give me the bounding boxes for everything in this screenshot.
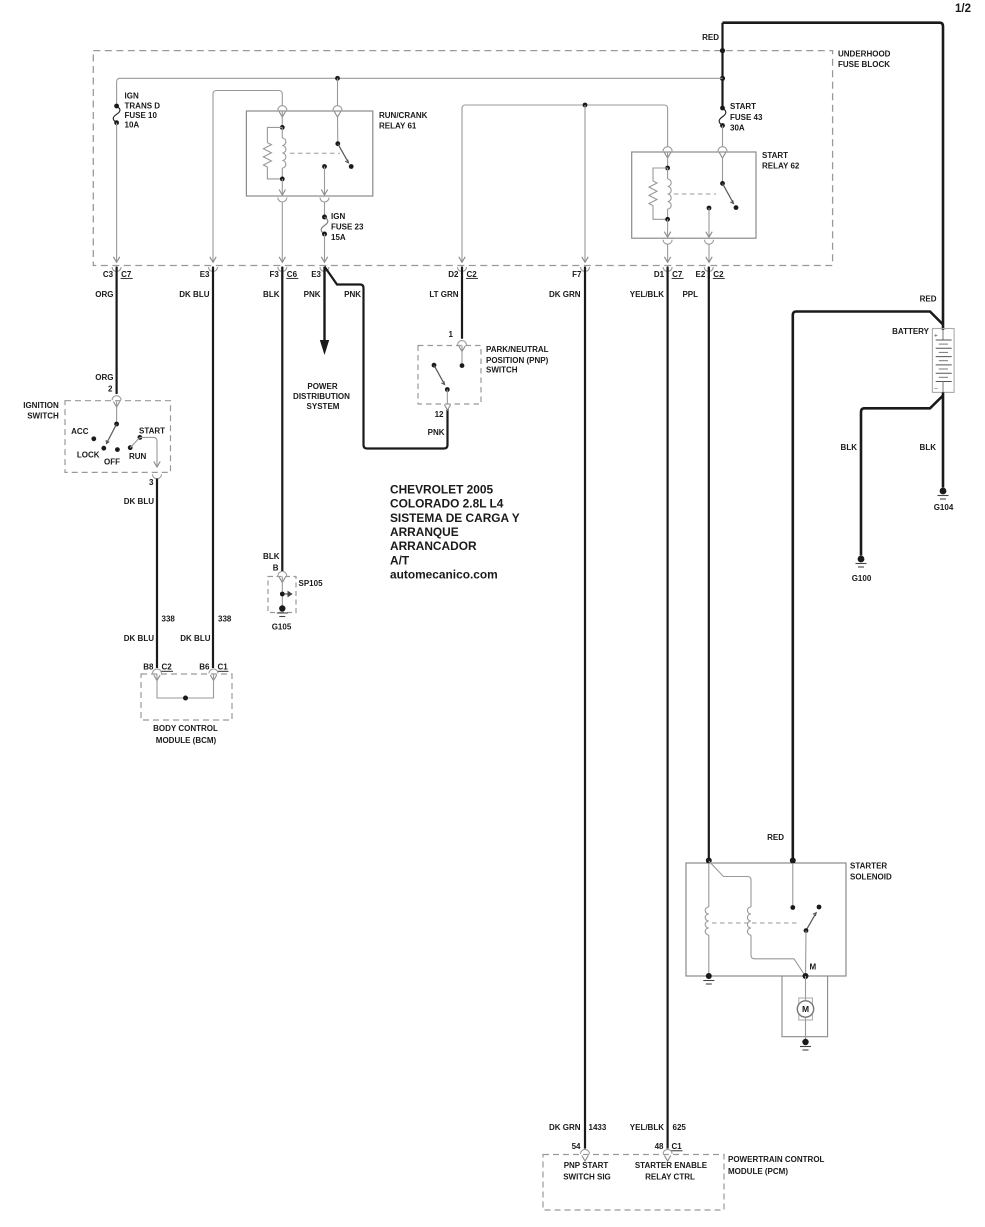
svg-text:B: B [273,564,279,573]
svg-text:338: 338 [162,615,176,624]
node PNP left contact [432,363,437,368]
svg-text:PPL: PPL [682,290,698,299]
svg-text:YEL/BLK: YEL/BLK [630,290,664,299]
wire solenoid pull-in winding branch [709,861,751,907]
node junction RED at main bus [720,76,725,81]
svg-text:FUSE 43: FUSE 43 [730,113,763,122]
pin connector SP105 top [278,571,287,576]
wire fuse43 to relay62 switch [722,126,724,147]
svg-text:−: − [934,386,938,393]
pin connector PCM 48 [663,1149,672,1153]
pin connector relay62 bottom D1 [663,240,672,245]
svg-text:RELAY CTRL: RELAY CTRL [645,1173,695,1182]
wire relay61 output to fuse 23 [324,202,326,217]
wire ignition pole [116,401,118,424]
svg-text:C2: C2 [713,270,724,279]
svg-text:C3: C3 [103,270,114,279]
svg-text:338: 338 [218,615,232,624]
wire PNP pin 12 internal [446,390,448,404]
svg-text:G104: G104 [934,503,954,512]
switch arm relay61 [338,144,349,163]
svg-text:DK BLU: DK BLU [124,497,154,506]
svg-text:RELAY 61: RELAY 61 [379,122,417,131]
wire BLK battery negative branch to G100 [861,396,943,556]
svg-text:STARTER: STARTER [850,862,887,871]
wire PPL E2/C2 to starter solenoid [708,267,710,861]
wire pull-in winding to M terminal [751,935,805,976]
wire pivot to M terminal [805,931,808,976]
svg-text:TRANS D: TRANS D [125,102,161,111]
node relay61 output contact [322,164,327,169]
svg-text:1: 1 [449,330,454,339]
node LOCK position [101,446,106,451]
wire YEL/BLK D1/C7 to PCM 48 [666,267,668,1149]
wire RUN to START link [130,437,140,447]
wire fuse23 to connector row E3 [324,234,326,262]
svg-text:E3: E3 [200,270,210,279]
wire SP105 internal [281,577,283,609]
pin connector PCM 54 [581,1149,590,1153]
dashed actuator link solenoid [712,922,798,924]
pin connector relay61 coil top [278,106,287,111]
fuse F43 START 30A [720,106,725,111]
wire BLK F3/C6 to splice SP105 [281,267,283,571]
svg-text:M: M [802,1004,809,1014]
svg-text:30A: 30A [730,124,745,133]
dashed actuator link relay61 [290,152,340,154]
svg-text:POWERTRAIN CONTROL: POWERTRAIN CONTROL [728,1155,825,1164]
svg-text:RELAY 62: RELAY 62 [762,162,800,171]
wire relay61 switch feed from bus [337,78,339,105]
node relay62 coil bottom [665,217,670,222]
coil solenoid hold-in winding [708,863,710,907]
svg-text:PARK/NEUTRAL: PARK/NEUTRAL [486,345,549,354]
wire DK BLU E3 to BCM B6 [212,267,214,668]
svg-text:MODULE (PCM): MODULE (PCM) [728,1167,788,1176]
svg-text:IGNITION: IGNITION [23,401,59,410]
starter motor housing [782,976,828,1037]
wire LT GRN D2/C2 to PNP pin 1 [461,267,463,339]
pin connector ignition switch pin 2 [112,396,121,401]
svg-text:COLORADO 2.8L L4: COLORADO 2.8L L4 [390,497,504,511]
svg-text:+: + [934,333,938,340]
wire M terminal to motor [805,976,807,1000]
svg-text:automecanico.com: automecanico.com [390,567,498,581]
svg-text:RED: RED [767,833,784,842]
svg-text:SOLENOID: SOLENOID [850,873,892,882]
svg-text:C2: C2 [467,270,478,279]
ground G104 [940,488,947,495]
svg-text:BLK: BLK [841,443,858,452]
svg-text:BATTERY: BATTERY [892,327,930,336]
wire relay62 E2 drop to row [708,244,710,262]
node relay62 NO contact [734,205,739,210]
svg-text:SWITCH: SWITCH [27,412,59,421]
svg-text:C1: C1 [672,1142,683,1151]
node relay62 switch pivot [720,181,725,186]
switch arm PNP [434,365,445,384]
svg-text:ACC: ACC [71,427,89,436]
battery symbol [932,329,954,393]
wire main bus y78 with drop to fuse 10 [117,78,723,106]
svg-text:BLK: BLK [263,552,280,561]
svg-text:A/T: A/T [390,553,410,567]
svg-text:BLK: BLK [920,443,937,452]
node ignition pivot [114,422,119,427]
node relay61 coil bottom [280,177,285,182]
svg-text:UNDERHOOD: UNDERHOOD [838,50,891,59]
svg-text:SP105: SP105 [299,579,324,588]
powertrain control module dashed box [543,1155,724,1211]
wire RED feed from battery to fuse block [721,23,723,108]
wire RED battery to starter solenoid [793,312,943,861]
node M terminal [803,973,809,979]
wire relay62 coil top stub [667,152,669,168]
wire relay61 output to pin [324,167,326,195]
ground G100 [858,556,865,563]
splice SP105 dashed box [268,577,296,613]
svg-text:DISTRIBUTION: DISTRIBUTION [293,392,350,401]
wire relay62 coil bottom to pin [667,219,669,236]
coil solenoid pull-in winding [747,907,751,935]
pin connector relay62 coil top [663,147,672,152]
wire relay61 switch arm feed [337,117,339,144]
wire RED main battery positive [723,23,944,330]
node START position [138,435,143,440]
svg-text:ORG: ORG [95,290,113,299]
svg-text:SWITCH: SWITCH [486,366,518,375]
switch arm solenoid contact disc [806,913,816,931]
svg-text:SWITCH SIG: SWITCH SIG [563,1173,611,1182]
svg-text:FUSE 10: FUSE 10 [125,111,158,120]
ground solenoid case [703,980,714,982]
node bus to run/crank relay 61 [335,76,340,81]
svg-text:10A: 10A [125,121,140,130]
arrowhead power distribution [320,340,329,355]
pin connector relay62 switch top [718,147,727,152]
svg-text:DK GRN: DK GRN [549,290,581,299]
node solenoid fixed contact [790,905,795,910]
node PNP right contact [460,363,465,368]
switch arm ignition key to LOCK [107,424,117,444]
pin connector relay61 switch top [333,106,342,111]
svg-text:LT GRN: LT GRN [429,290,458,299]
connector sockets at fuse block bottom edge [112,267,121,272]
node relay61 switch pivot [335,141,340,146]
svg-text:START: START [139,427,165,436]
node ACC position [91,436,96,441]
fuse F23 IGN 15A [322,215,327,220]
svg-text:POWER: POWER [307,382,337,391]
coil relay61 winding [281,127,283,138]
svg-text:START: START [762,151,788,160]
resistor relay62 parallel branch [653,168,668,181]
svg-text:BLK: BLK [263,290,280,299]
svg-text:G105: G105 [272,623,292,632]
relay K61 RUN/CRANK RELAY box [246,111,372,196]
wire RED contact feed [792,863,794,908]
svg-text:PNK: PNK [344,290,361,299]
ignition switch dashed box [65,401,171,473]
pin connector relay61 bottom E3 [320,198,329,203]
wire PNK to power distribution system [323,267,325,342]
pin connector relay61 bottom F3 [278,198,287,203]
wire E3 riser to relay61 coil [213,91,282,263]
dashed actuator link relay62 [674,193,716,195]
svg-text:BODY CONTROL: BODY CONTROL [153,724,218,733]
coil relay62 winding [667,168,669,179]
svg-text:C7: C7 [672,270,683,279]
wire DK BLU ignition to BCM B8 [156,479,158,669]
svg-text:1/2: 1/2 [955,3,971,15]
svg-text:M: M [810,963,817,972]
svg-text:START: START [730,102,756,111]
wire node bus y105 D2-F7-relay62 [462,105,668,262]
svg-text:MODULE (BCM): MODULE (BCM) [156,736,217,745]
svg-text:DK BLU: DK BLU [124,634,154,643]
node relay62 output contact [707,206,712,211]
svg-text:C1: C1 [218,663,229,672]
node ground terminal hold-in [706,973,712,979]
node relay61 coil top [280,125,285,130]
node junction RED at fuse block border [720,48,725,53]
wire ORG C3/C7 to ignition switch pin 2 [115,267,117,394]
svg-text:DK BLU: DK BLU [180,634,210,643]
svg-text:SISTEMA DE CARGA Y: SISTEMA DE CARGA Y [390,511,520,525]
svg-text:ORG: ORG [95,373,113,382]
svg-text:STARTER ENABLE: STARTER ENABLE [635,1161,708,1170]
svg-text:POSITION (PNP): POSITION (PNP) [486,356,549,365]
node F7 tee [583,103,588,108]
svg-text:RED: RED [702,33,719,42]
node RED terminal [790,858,796,864]
node BCM internal junction [183,696,188,701]
svg-text:3: 3 [149,478,154,487]
ground G105 [279,605,285,611]
pin connector BCM B8 [153,669,162,674]
wire relay61 coil bottom to pin [281,179,283,195]
svg-text:IGN: IGN [331,212,345,221]
node PPL terminal [706,858,712,864]
wire fuse10 to connector C3/C7 [116,123,118,263]
svg-text:RUN: RUN [129,452,147,461]
svg-text:PNK: PNK [428,428,445,437]
wire relay62 output to pin [708,208,710,237]
svg-text:B6: B6 [199,663,210,672]
svg-text:D2: D2 [448,270,459,279]
node OFF position [115,447,120,452]
wire BLK battery negative to G104 [942,392,945,487]
svg-text:E2: E2 [696,270,706,279]
svg-text:CHEVROLET 2005: CHEVROLET 2005 [390,483,493,497]
pin connector ignition pin 3 [153,474,162,479]
park/neutral position switch dashed box [418,346,481,405]
wire relay61 coil top stub [281,111,283,127]
svg-text:SYSTEM: SYSTEM [307,402,340,411]
svg-text:C7: C7 [121,270,132,279]
svg-text:RUN/CRANK: RUN/CRANK [379,111,428,120]
svg-text:C6: C6 [287,270,298,279]
wire motor to ground [805,1017,807,1042]
wire PNK branch to PNP switch pin 12 [325,267,448,449]
svg-text:DK GRN: DK GRN [549,1123,581,1132]
starter solenoid box [686,863,846,976]
wire relay61 F3 drop to connector row [281,202,283,262]
svg-text:YEL/BLK: YEL/BLK [630,1123,664,1132]
svg-text:F7: F7 [572,270,582,279]
node RUN position [128,445,133,450]
wire F7 drop [584,105,586,262]
svg-text:B8: B8 [143,663,154,672]
wire START position to pin 3 [140,437,157,466]
wire DK GRN F7 to PCM 54 [584,267,586,1149]
svg-text:ARRANQUE: ARRANQUE [390,525,459,539]
pin connector PNP pin 1 [458,341,467,346]
svg-text:15A: 15A [331,233,346,242]
wire relay62 D1 drop to row [667,244,669,262]
svg-text:D1: D1 [654,270,665,279]
fuse F10 IGN TRANS D 10A [114,104,119,109]
wire relay62 switch feed [722,158,724,183]
svg-text:DK BLU: DK BLU [179,290,209,299]
wire BCM internal link [157,674,214,698]
svg-text:12: 12 [435,410,444,419]
pin connector relay62 bottom E2 [705,240,714,245]
svg-text:G100: G100 [852,574,872,583]
ground starter motor [802,1039,808,1045]
motor brush box [799,998,813,1020]
node solenoid switch tip [817,905,822,910]
svg-text:LOCK: LOCK [77,451,100,460]
node PNP arm end [445,387,450,392]
svg-text:C2: C2 [162,663,173,672]
switch arm relay62 [723,183,734,203]
svg-text:2: 2 [108,385,113,394]
resistor relay61 parallel branch [267,127,282,142]
node relay62 coil top [665,166,670,171]
svg-text:F3: F3 [269,270,279,279]
svg-text:OFF: OFF [104,458,120,467]
wire PNP pole [461,346,463,366]
svg-text:54: 54 [572,1142,581,1151]
motor M circle [797,1001,813,1017]
body control module dashed box [141,674,232,720]
svg-text:PNK: PNK [304,290,321,299]
node SP105 splice with arrow [280,592,285,597]
node solenoid arm pivot [804,928,809,933]
svg-text:PNP START: PNP START [564,1161,609,1170]
svg-text:E3: E3 [311,270,321,279]
svg-text:ARRANCADOR: ARRANCADOR [390,539,477,553]
svg-text:FUSE 23: FUSE 23 [331,223,364,232]
svg-text:625: 625 [673,1123,687,1132]
svg-text:RED: RED [920,295,937,304]
svg-text:IGN: IGN [125,92,139,101]
underhood fuse block dashed box [93,51,832,266]
pin connector BCM B6 [209,669,218,674]
svg-text:1433: 1433 [589,1123,607,1132]
relay K62 START RELAY box [632,152,756,238]
svg-text:FUSE BLOCK: FUSE BLOCK [838,60,890,69]
node relay61 NO contact [349,164,354,169]
svg-text:48: 48 [655,1142,664,1151]
